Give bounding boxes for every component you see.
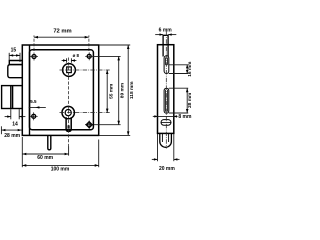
side view upper slot (164, 56, 169, 74)
side view lower slot (164, 88, 169, 113)
dimension 89 mm vertical (118, 56, 120, 124)
extension line screw top-left up (33, 35, 35, 51)
svg-text:ø 8: ø 8 (73, 53, 80, 58)
dimension 118 mm vertical (127, 45, 129, 135)
extension line screws right (93, 55, 121, 57)
faceplate edge line (29, 45, 31, 135)
keyhole (62, 106, 74, 131)
side view seam line 8mm (158, 115, 174, 117)
svg-text:100 mm: 100 mm (51, 166, 70, 172)
dimension 60 mm (22, 137, 68, 167)
label 8 mm leader arrows (153, 115, 158, 117)
dimension 55 mm vertical (106, 70, 108, 113)
dimension 20 mm (152, 134, 180, 161)
svg-text:15: 15 (11, 48, 17, 54)
latch bolt stem (9, 61, 22, 65)
side view box (158, 45, 174, 134)
svg-text:28 mm: 28 mm (187, 93, 193, 108)
extension line case bottom right (99, 134, 131, 136)
svg-text:5.5: 5.5 (30, 99, 37, 104)
svg-text:20 mm: 20 mm (159, 166, 175, 172)
rod visible in upper slot (166, 58, 168, 65)
side view bottom tube (160, 133, 172, 147)
svg-text:60 mm: 60 mm (37, 155, 53, 161)
extension line screw top-right up (88, 35, 90, 51)
svg-text:28 mm: 28 mm (4, 133, 20, 139)
side view bottom rod inner lines (162, 133, 168, 142)
side view centerline (165, 32, 167, 149)
dimension 100 mm (22, 140, 98, 168)
spindle follower circle (63, 64, 76, 77)
centerline vertical through spindle and keyhole (68, 58, 70, 150)
svg-text:14: 14 (12, 122, 18, 128)
dimension 6 mm (155, 34, 176, 36)
svg-text:89 mm: 89 mm (119, 83, 125, 98)
rod visible in lower slot (166, 90, 168, 112)
countersunk screw hole bottom-right (85, 121, 93, 129)
screw hole bottom-left (30, 112, 38, 120)
dimension 72 mm (34, 36, 89, 38)
svg-text:55 mm: 55 mm (108, 84, 114, 99)
side view 8mm slot pill (161, 120, 171, 126)
latch bolt head (8, 65, 22, 78)
dimension 28 mm left (1, 126, 21, 134)
spindle square hole (67, 67, 72, 73)
centerline horizontal keyhole (60, 112, 110, 114)
side view top rod (163, 35, 168, 56)
deadbolt plate line 1 (10, 86, 12, 109)
deadbolt (2, 86, 23, 109)
dimension 16 mm (169, 65, 188, 74)
screw hole top-left (30, 53, 38, 61)
dimension 28 mm side (169, 88, 188, 113)
extension line case top right (99, 44, 131, 46)
screw hole top-right (85, 52, 93, 60)
svg-text:118 mm: 118 mm (129, 81, 135, 99)
lock cover rounded plate (30, 50, 94, 130)
svg-text:6 mm: 6 mm (159, 28, 173, 34)
lock case outer plate (22, 45, 98, 135)
centerline horizontal spindle (60, 69, 110, 71)
svg-text:8 mm: 8 mm (178, 114, 192, 120)
svg-text:16 mm: 16 mm (187, 62, 193, 77)
bottom rod (48, 135, 51, 149)
svg-text:72 mm: 72 mm (53, 29, 71, 35)
extension line diamond right (94, 124, 121, 126)
dimension 14 deadbolt (5, 109, 26, 119)
deadbolt plate line 2 (12, 86, 14, 109)
